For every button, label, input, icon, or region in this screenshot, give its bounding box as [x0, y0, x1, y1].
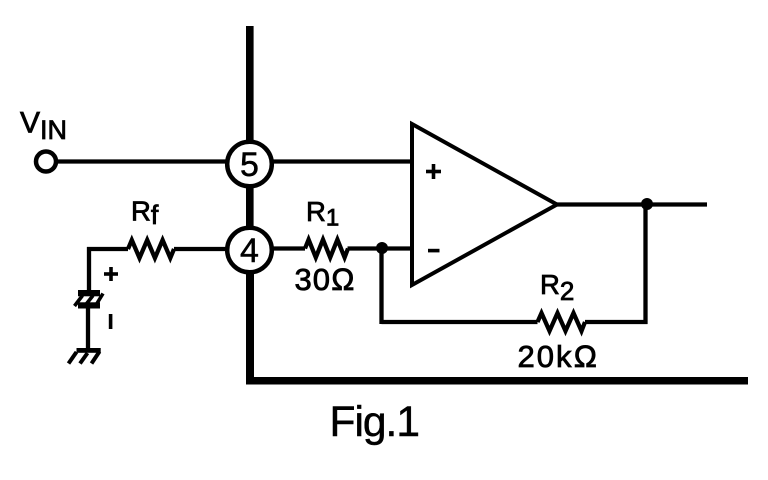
svg-text:4: 4 — [240, 232, 259, 270]
svg-text:20kΩ: 20kΩ — [518, 339, 600, 374]
svg-text:Fig.1: Fig.1 — [330, 399, 419, 446]
svg-text:Rf: Rf — [131, 196, 159, 231]
svg-text:30Ω: 30Ω — [295, 262, 356, 297]
svg-text:5: 5 — [240, 146, 259, 184]
